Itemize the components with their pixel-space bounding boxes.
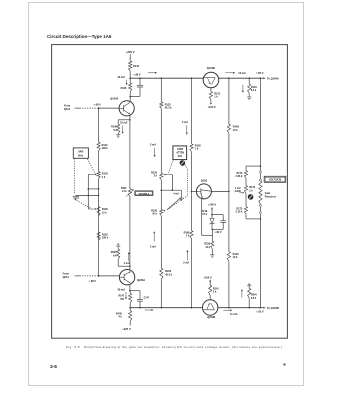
scanned page outline — [29, 3, 304, 386]
node +225 V supply label — [126, 50, 135, 54]
svg-text:15 mA: 15 mA — [120, 121, 127, 124]
svg-text:≈ 82 V: ≈ 82 V — [256, 310, 264, 314]
transistor Q134B — [203, 66, 219, 88]
svg-text:45.3 k: 45.3 k — [165, 273, 172, 276]
svg-text:−225 V: −225 V — [122, 327, 131, 331]
resistor R173 — [236, 193, 248, 214]
svg-text:+225 V: +225 V — [126, 50, 135, 54]
resistor R148 — [227, 124, 239, 133]
resistor R170 — [236, 171, 248, 179]
current arrow 4 mA — [124, 252, 130, 265]
potentiometer R135 — [151, 171, 163, 179]
current arrow 30 mA lower — [117, 288, 127, 299]
wire Q150 emitter — [202, 199, 213, 236]
resistor R158 — [204, 229, 214, 249]
svg-text:Q214: Q214 — [63, 276, 70, 279]
label From Q214 — [63, 272, 70, 278]
svg-text:BAL: BAL — [178, 155, 183, 158]
svg-text:Q114: Q114 — [64, 108, 71, 111]
wire R141 to Q234B emitter — [209, 295, 211, 300]
wire gain chain lower segs — [259, 204, 261, 307]
wire top rail +98V node to Q134B base — [130, 77, 203, 79]
wire +100V arrow to R141 — [209, 280, 211, 286]
node +100 V below R131 — [207, 105, 216, 109]
wire R142 to R143 — [98, 151, 100, 172]
current arrow 4 mA center — [173, 192, 179, 195]
wire Q150 collector — [211, 191, 229, 193]
svg-text:100 k: 100 k — [102, 147, 109, 150]
resistor R142 — [97, 142, 108, 151]
resistor R141 — [209, 285, 220, 295]
label From Q114 — [64, 105, 71, 111]
copyright mark — [283, 363, 285, 365]
wire R150 to R160 — [191, 152, 193, 231]
resistor R147 — [118, 291, 131, 308]
svg-text:45.3 k: 45.3 k — [165, 107, 172, 110]
wire R148 column upper — [228, 78, 230, 124]
dashed linkage VAR BAL to R136 wiper — [75, 199, 91, 208]
svg-text:2 mA: 2 mA — [182, 121, 188, 124]
switch contact 4 — [259, 212, 261, 214]
switch contact 3 — [259, 205, 261, 207]
node base Q134A +98V — [94, 104, 102, 109]
svg-text:VARIABLE: VARIABLE — [139, 192, 150, 195]
svg-text:R146: R146 — [121, 87, 127, 90]
knob GAIN — [248, 194, 254, 200]
wire base Q134A — [99, 107, 120, 109]
node Q150 emitter 82V — [212, 229, 222, 234]
page header — [47, 34, 112, 39]
node -225 V supply label — [122, 327, 131, 331]
wire R233 to bottom rail — [161, 279, 163, 308]
svg-text:14 k: 14 k — [122, 190, 127, 193]
wiper arrow R136 — [88, 208, 97, 210]
current arrow 15 mA — [120, 121, 127, 133]
wire R146/C146 bottom junction — [129, 96, 140, 98]
resistor R133 — [160, 102, 172, 110]
wiper arrow R143 — [88, 173, 97, 175]
svg-text:VOLTS/CM: VOLTS/CM — [269, 179, 281, 182]
svg-text:To Q164A: To Q164A — [267, 76, 279, 80]
svg-text:Q134B: Q134B — [207, 66, 215, 70]
capacitor C150 — [212, 215, 226, 230]
current arrow 3 mA upper — [150, 144, 156, 157]
current arrow 10 mA — [225, 72, 246, 75]
svg-text:6.2 k: 6.2 k — [251, 297, 257, 300]
svg-text:4 mA: 4 mA — [124, 262, 130, 265]
figure border frame — [52, 45, 288, 339]
wire R147/C147 top junction — [129, 290, 140, 292]
wire R160 to bottom rail — [191, 239, 193, 309]
wire R143 wiper bus — [87, 174, 89, 209]
svg-text:C147: C147 — [144, 296, 150, 299]
wire gain branch top — [246, 166, 260, 171]
potentiometer R143 — [97, 172, 108, 179]
svg-text:Q234B: Q234B — [207, 315, 215, 319]
wire base Q234A — [99, 275, 120, 277]
svg-text:Fig. 3-5 Simplified drawing: Fig. 3-5 Simplified drawing of the gain … — [66, 345, 282, 349]
node +100 V (zener feed) — [208, 203, 217, 207]
potentiometer R137 — [121, 187, 132, 197]
resistor R150 — [190, 144, 201, 152]
wiper arrow R172 — [239, 192, 244, 194]
wire R131 to +100V arrow — [210, 100, 212, 105]
wire wiper tap lower — [76, 195, 99, 197]
node +100 V above R141 — [203, 275, 212, 279]
wire bottom rail left segment — [129, 307, 202, 309]
svg-text:10 k: 10 k — [233, 129, 238, 132]
svg-text:GAIN: GAIN — [235, 190, 241, 193]
svg-text:2.25 k: 2.25 k — [236, 211, 243, 214]
wire R144 to +98V node — [129, 71, 131, 78]
gain resistors chain — [259, 181, 277, 204]
svg-text:≈ 98 V: ≈ 98 V — [89, 280, 97, 283]
wire R148 to R149 — [228, 133, 230, 251]
svg-text:+100 V: +100 V — [207, 105, 216, 109]
svg-text:2.86 k: 2.86 k — [236, 175, 243, 178]
transistor Q134A — [110, 97, 134, 116]
svg-text:Q134A: Q134A — [110, 97, 118, 101]
svg-text:3 mA: 3 mA — [150, 246, 156, 249]
wire Q234A collector — [129, 285, 131, 291]
node +98 V label — [133, 73, 141, 77]
ground at R135/R136 wiper node — [179, 190, 183, 201]
wire Q150 base — [192, 190, 197, 192]
junction top rail / R148 column — [228, 77, 230, 79]
svg-text:Q150: Q150 — [201, 178, 208, 182]
svg-text:BAL: BAL — [78, 153, 84, 157]
svg-text:Circuit Description—Type 1A6: Circuit Description—Type 1A6 — [47, 34, 112, 39]
svg-text:10 k: 10 k — [233, 256, 238, 259]
resistor R145 — [116, 308, 132, 326]
junction top rail / R133 column — [161, 77, 163, 79]
svg-text:ATTEN: ATTEN — [176, 151, 184, 154]
knob STEP ATTEN BAL — [180, 160, 186, 166]
capacitor C143 — [73, 195, 79, 200]
svg-text:STEP: STEP — [177, 149, 184, 151]
svg-text:+100 V: +100 V — [203, 275, 212, 279]
svg-text:10 k: 10 k — [152, 213, 157, 216]
zener D148 — [201, 210, 214, 229]
transistor Q234B — [203, 300, 218, 319]
svg-text:15 V: 15 V — [202, 213, 207, 216]
current arrow 3 mA lower — [150, 231, 156, 248]
potentiometer R172 — [244, 178, 255, 193]
wiper R135 — [164, 174, 173, 191]
svg-text:≈ 82 V: ≈ 82 V — [214, 231, 222, 234]
potentiometer R136 lower — [151, 209, 163, 215]
wire gain chain segment — [259, 166, 261, 179]
page number 3-6 — [50, 364, 57, 370]
svg-text:787: 787 — [120, 298, 125, 301]
node base Q234A +98V — [89, 275, 100, 283]
arrow on bottom rail — [145, 309, 154, 311]
potentiometer R136 — [97, 207, 108, 216]
dashed linkage to R136 wiper — [168, 195, 187, 209]
wiper R136 lower — [163, 198, 181, 212]
transistor Q234A — [119, 270, 145, 285]
current arrow down at R134 — [242, 85, 244, 93]
wire R150 column upper — [191, 78, 193, 144]
transistor Q150 — [196, 178, 211, 199]
node 82 V label — [256, 310, 264, 314]
wire R133 column upper — [160, 78, 162, 102]
svg-text:12 k: 12 k — [205, 246, 210, 249]
svg-text:30 mA: 30 mA — [117, 288, 125, 291]
svg-text:Q234A: Q234A — [137, 278, 145, 282]
wire center column lower — [160, 216, 162, 269]
wire R133 to R135 — [160, 109, 162, 174]
output arrow To Q164B — [260, 306, 279, 310]
wire Q234A emitter — [129, 266, 131, 270]
node 85 V label — [256, 71, 264, 75]
wire gain line upper — [260, 78, 262, 167]
control box STEP ATTEN BAL — [173, 146, 187, 160]
wire left column mid — [98, 178, 100, 276]
svg-text:12 k: 12 k — [102, 211, 107, 214]
control box VOLTS/CM — [264, 176, 286, 182]
switch contact 1 — [259, 171, 261, 173]
wire bottom emitter junction — [118, 265, 131, 267]
current arrow 2 mA lower — [183, 250, 189, 264]
wire +225V stub — [129, 54, 131, 61]
control box VARIABLE — [135, 191, 153, 196]
resistor R146 — [121, 78, 132, 96]
ground below R134 — [247, 96, 251, 100]
output arrow To Q164A — [260, 76, 279, 80]
switch contact 2 — [259, 179, 261, 181]
svg-text:R144: R144 — [133, 65, 140, 68]
resistor R244 — [248, 287, 258, 309]
resistor R160 — [184, 231, 193, 239]
wire emitter column lower — [129, 196, 131, 266]
wire from Q214 (dashed) — [75, 275, 99, 277]
svg-text:≈ 98 V: ≈ 98 V — [94, 104, 102, 107]
current arrow 30 mA — [117, 76, 127, 85]
resistor R233 — [160, 268, 173, 279]
svg-text:3 mA: 3 mA — [150, 144, 156, 147]
current arrow up at R244 — [241, 289, 243, 297]
junction top rail / R150 column — [191, 77, 193, 79]
junction node R144/R146 — [129, 77, 131, 79]
svg-text:≈ 85 V: ≈ 85 V — [256, 71, 264, 75]
wire R149 to bottom rail — [228, 261, 230, 308]
wiper arrow R137 diagonal — [126, 189, 134, 197]
wire wiper tap upper — [88, 188, 100, 190]
svg-text:2 mA: 2 mA — [183, 261, 189, 264]
current arrow 2 mA upper — [182, 121, 188, 134]
capacitor C146 — [137, 77, 143, 96]
junction C147 rail — [139, 307, 141, 309]
wire wiper junction horizontal — [161, 189, 182, 191]
wire Q134A emitter — [129, 115, 131, 120]
wire emitter junction horizontal — [118, 119, 131, 121]
resistor R240 — [111, 247, 120, 266]
resistor R140 — [111, 120, 120, 134]
svg-text:≈ 98 V: ≈ 98 V — [133, 73, 141, 77]
dashed linkage VAR BAL to R143 wiper — [87, 159, 94, 173]
resistor R134 — [248, 77, 258, 95]
svg-text:6.2 k: 6.2 k — [251, 89, 257, 92]
wire left column upper — [98, 108, 100, 142]
wire Q134A collector — [129, 96, 131, 101]
dashed linkage VAR BAL vertical — [73, 158, 75, 193]
wire bottom rail collector segment — [218, 307, 261, 309]
wire top rail collector segment — [219, 77, 261, 79]
label 1 mV GAIN — [235, 187, 241, 193]
svg-text:Resistors: Resistors — [265, 195, 277, 198]
ground below R158 — [210, 249, 214, 258]
dashed linkage STEP ATTEN BAL vertical — [185, 166, 187, 196]
arrow signal right at +98V node — [148, 72, 157, 74]
resistor R131 — [209, 88, 220, 100]
svg-text:11 mA: 11 mA — [230, 313, 238, 316]
resistor R144 — [129, 61, 140, 71]
svg-text:VAR: VAR — [78, 149, 83, 153]
current arrow 11 mA — [223, 309, 237, 316]
svg-text:10 mA: 10 mA — [238, 72, 246, 75]
wire zener feed with up arrow — [211, 207, 213, 215]
svg-text:30 mA: 30 mA — [117, 76, 125, 79]
ground below R140 — [116, 134, 120, 138]
control box VAR BAL — [73, 148, 88, 158]
svg-text:100 k: 100 k — [102, 237, 109, 240]
svg-text:4 mA: 4 mA — [173, 192, 179, 195]
svg-text:To Q164B: To Q164B — [267, 306, 279, 310]
wire emitter column upper — [129, 120, 131, 189]
capacitor C147 — [137, 291, 150, 308]
resistor R152 — [97, 232, 109, 241]
ground above R244 — [247, 283, 251, 287]
wire gain branch bottom — [246, 214, 261, 220]
wire center column mid — [160, 180, 162, 210]
svg-text:+100 V: +100 V — [208, 203, 217, 207]
wire from Q114 (dashed) — [75, 107, 99, 109]
dashed linkage to R135 wiper — [168, 159, 173, 173]
resistor R149 — [227, 252, 239, 262]
ground above R240 — [116, 244, 120, 248]
figure caption — [66, 345, 282, 349]
svg-text:3-6: 3-6 — [50, 364, 57, 370]
